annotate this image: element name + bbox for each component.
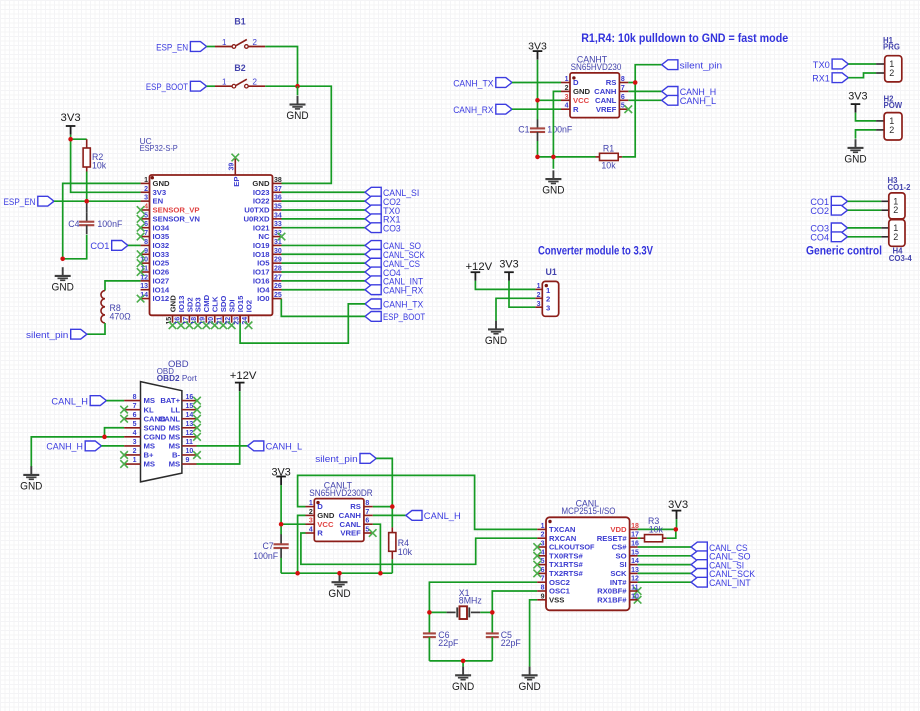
svg-text:100nF: 100nF — [97, 219, 123, 229]
svg-text:RS: RS — [350, 502, 361, 511]
svg-text:470Ω: 470Ω — [110, 312, 132, 322]
svg-text:1: 1 — [222, 38, 227, 47]
svg-text:U0TXD: U0TXD — [244, 206, 270, 215]
svg-text:22: 22 — [225, 317, 232, 325]
svg-text:CO2: CO2 — [810, 205, 829, 216]
svg-text:MS: MS — [169, 432, 181, 441]
svg-text:12: 12 — [631, 576, 639, 583]
svg-text:TX0RTS#: TX0RTS# — [549, 551, 583, 560]
svg-text:+12V: +12V — [230, 370, 257, 382]
svg-text:PRG: PRG — [883, 43, 900, 52]
svg-text:GND: GND — [485, 335, 507, 347]
svg-text:15: 15 — [186, 403, 194, 410]
svg-text:R1,R4: 10k pulldown to GND = f: R1,R4: 10k pulldown to GND = fast mode — [581, 33, 788, 45]
svg-text:2: 2 — [546, 295, 550, 304]
svg-text:INT#: INT# — [610, 578, 627, 587]
svg-text:8MHz: 8MHz — [459, 595, 482, 605]
svg-text:100nF: 100nF — [547, 125, 573, 135]
svg-text:11: 11 — [631, 585, 639, 592]
svg-text:8: 8 — [365, 500, 369, 507]
svg-text:19: 19 — [200, 317, 207, 325]
svg-text:IO23: IO23 — [253, 188, 270, 197]
svg-text:10: 10 — [631, 593, 639, 600]
svg-text:MS: MS — [169, 460, 181, 469]
svg-text:CANH: CANH — [339, 511, 362, 520]
svg-text:8: 8 — [621, 76, 625, 83]
svg-text:CANH_TX: CANH_TX — [383, 299, 424, 310]
svg-text:9: 9 — [541, 593, 545, 600]
svg-text:GND: GND — [52, 282, 74, 294]
svg-text:IO33: IO33 — [153, 250, 170, 259]
svg-text:14: 14 — [631, 558, 639, 565]
svg-text:CANH_TX: CANH_TX — [453, 77, 494, 88]
svg-text:IO17: IO17 — [253, 268, 270, 277]
svg-text:GND: GND — [844, 154, 866, 166]
svg-text:17: 17 — [631, 532, 639, 539]
svg-text:1: 1 — [133, 457, 137, 464]
svg-text:IO4: IO4 — [257, 285, 270, 294]
svg-text:10: 10 — [186, 448, 194, 455]
svg-text:IO16: IO16 — [253, 276, 270, 285]
svg-text:POW: POW — [884, 101, 903, 110]
svg-text:CANH: CANH — [594, 87, 617, 96]
svg-text:TX0: TX0 — [813, 59, 830, 70]
svg-text:24: 24 — [242, 317, 249, 325]
svg-text:VDD: VDD — [610, 525, 627, 534]
svg-text:B1: B1 — [234, 17, 245, 27]
svg-text:CANL: CANL — [595, 96, 617, 105]
svg-text:TXCAN: TXCAN — [549, 525, 576, 534]
svg-text:18: 18 — [631, 523, 639, 530]
svg-text:30: 30 — [274, 248, 282, 255]
svg-text:OSC2: OSC2 — [549, 578, 570, 587]
svg-text:2: 2 — [144, 186, 148, 193]
svg-text:13: 13 — [140, 283, 148, 290]
svg-text:7: 7 — [133, 403, 137, 410]
svg-text:GND: GND — [542, 185, 564, 197]
svg-text:RX0BF#: RX0BF# — [597, 587, 627, 596]
svg-text:2: 2 — [253, 38, 258, 47]
svg-text:U0RXD: U0RXD — [243, 214, 270, 223]
svg-text:10k: 10k — [398, 547, 413, 557]
svg-text:IO14: IO14 — [153, 285, 170, 294]
svg-text:D: D — [573, 78, 579, 87]
svg-text:MS: MS — [144, 460, 156, 469]
svg-text:IO26: IO26 — [153, 268, 170, 277]
svg-text:MS: MS — [169, 442, 181, 451]
svg-text:D: D — [317, 502, 323, 511]
svg-text:BAT+: BAT+ — [160, 396, 180, 405]
svg-text:RXCAN: RXCAN — [549, 534, 577, 543]
svg-text:ESP_EN: ESP_EN — [4, 196, 36, 207]
svg-text:3: 3 — [144, 195, 148, 202]
svg-text:EP: EP — [232, 177, 241, 187]
svg-text:2: 2 — [889, 125, 894, 135]
svg-text:VCC: VCC — [573, 96, 590, 105]
svg-text:2: 2 — [133, 448, 137, 455]
svg-text:GND: GND — [286, 110, 308, 122]
svg-text:6: 6 — [621, 94, 625, 101]
svg-text:3: 3 — [537, 301, 541, 308]
svg-text:RESET#: RESET# — [597, 534, 628, 543]
svg-text:16: 16 — [174, 317, 181, 325]
svg-text:3V3: 3V3 — [499, 259, 518, 271]
svg-text:16: 16 — [631, 541, 639, 548]
svg-text:silent_pin: silent_pin — [680, 60, 722, 71]
svg-text:13: 13 — [186, 421, 194, 428]
svg-text:20: 20 — [208, 317, 215, 325]
svg-text:14: 14 — [186, 412, 194, 419]
svg-text:ESP_BOOT: ESP_BOOT — [383, 311, 425, 322]
svg-text:VCC: VCC — [317, 520, 334, 529]
svg-text:CANL_H: CANL_H — [51, 395, 88, 406]
svg-text:1: 1 — [222, 78, 227, 87]
svg-text:GND: GND — [252, 179, 270, 188]
svg-text:LL: LL — [171, 405, 181, 414]
svg-text:SO: SO — [615, 551, 626, 560]
svg-text:10k: 10k — [92, 161, 107, 171]
svg-text:+12V: +12V — [465, 261, 492, 273]
svg-text:CS#: CS# — [612, 543, 628, 552]
svg-text:CANH_L: CANH_L — [680, 95, 717, 106]
svg-text:IO22: IO22 — [253, 197, 270, 206]
svg-text:B2: B2 — [234, 63, 245, 73]
svg-text:1: 1 — [541, 523, 545, 530]
svg-text:38: 38 — [274, 177, 282, 184]
svg-text:10k: 10k — [649, 525, 664, 535]
svg-text:6: 6 — [133, 412, 137, 419]
svg-text:10k: 10k — [601, 160, 616, 170]
svg-text:17: 17 — [183, 317, 190, 325]
svg-text:IO34: IO34 — [153, 223, 170, 232]
svg-text:GND: GND — [20, 481, 42, 493]
svg-text:4: 4 — [133, 430, 137, 437]
svg-text:8: 8 — [541, 585, 545, 592]
svg-text:16: 16 — [186, 394, 194, 401]
svg-text:CO1: CO1 — [90, 240, 109, 251]
svg-text:1: 1 — [546, 286, 551, 295]
svg-text:CANL: CANL — [340, 520, 362, 529]
svg-text:9: 9 — [186, 457, 190, 464]
svg-text:IO25: IO25 — [153, 259, 170, 268]
svg-text:GND: GND — [317, 511, 335, 520]
svg-text:1: 1 — [565, 76, 569, 83]
svg-text:EN: EN — [153, 197, 164, 206]
svg-text:35: 35 — [274, 203, 282, 210]
svg-text:B-: B- — [172, 451, 181, 460]
svg-text:SN65HVD230DR: SN65HVD230DR — [309, 488, 372, 498]
svg-text:2: 2 — [537, 292, 541, 299]
svg-text:22pF: 22pF — [501, 638, 522, 648]
svg-text:R1: R1 — [603, 143, 614, 153]
svg-text:29: 29 — [274, 257, 282, 264]
svg-text:3: 3 — [133, 439, 137, 446]
svg-text:1: 1 — [537, 283, 541, 290]
svg-text:RX1BF#: RX1BF# — [597, 595, 627, 604]
svg-text:TX2RTS#: TX2RTS# — [549, 569, 583, 578]
svg-text:IO18: IO18 — [253, 250, 270, 259]
svg-text:GND: GND — [452, 681, 474, 693]
svg-text:IO21: IO21 — [253, 223, 270, 232]
svg-text:2: 2 — [541, 532, 545, 539]
svg-text:IO2: IO2 — [244, 300, 253, 312]
svg-text:VREF: VREF — [596, 105, 617, 114]
svg-text:22pF: 22pF — [438, 638, 459, 648]
svg-text:U1: U1 — [546, 267, 557, 277]
svg-text:ESP_BOOT: ESP_BOOT — [146, 81, 188, 92]
svg-text:21: 21 — [217, 317, 224, 325]
svg-text:IO0: IO0 — [257, 294, 269, 303]
svg-text:4: 4 — [565, 103, 569, 110]
svg-text:CLKOUTSOF: CLKOUTSOF — [549, 543, 595, 552]
svg-text:IO35: IO35 — [153, 232, 170, 241]
svg-text:Generic control: Generic control — [806, 246, 882, 258]
svg-text:IO27: IO27 — [153, 276, 170, 285]
svg-text:3: 3 — [309, 518, 313, 525]
svg-text:MS: MS — [169, 423, 181, 432]
svg-text:2: 2 — [889, 68, 894, 78]
svg-text:CANH_H: CANH_H — [46, 441, 83, 452]
svg-text:15: 15 — [166, 317, 173, 325]
svg-text:36: 36 — [274, 195, 282, 202]
svg-text:IO19: IO19 — [253, 241, 270, 250]
svg-text:6: 6 — [365, 518, 369, 525]
svg-text:2: 2 — [893, 205, 898, 215]
svg-text:TX1RTS#: TX1RTS# — [549, 560, 583, 569]
svg-text:1: 1 — [144, 177, 148, 184]
svg-text:2: 2 — [893, 232, 898, 242]
svg-text:IO5: IO5 — [257, 259, 270, 268]
svg-text:CGND: CGND — [144, 432, 167, 441]
svg-text:28: 28 — [274, 266, 282, 273]
svg-text:silent_pin: silent_pin — [26, 329, 68, 340]
svg-text:SENSOR_VP: SENSOR_VP — [153, 206, 200, 215]
svg-text:CANH_L: CANH_L — [266, 441, 303, 452]
svg-text:VSS: VSS — [549, 595, 564, 604]
svg-text:SGND: SGND — [144, 423, 167, 432]
svg-text:33: 33 — [274, 221, 282, 228]
svg-text:CO3: CO3 — [383, 223, 401, 234]
svg-text:GND: GND — [573, 87, 591, 96]
svg-text:11: 11 — [186, 439, 194, 446]
svg-text:3V3: 3V3 — [848, 90, 867, 102]
svg-text:2: 2 — [565, 85, 569, 92]
svg-text:3V3: 3V3 — [668, 499, 688, 511]
svg-text:B+: B+ — [144, 451, 155, 460]
svg-text:RS: RS — [606, 78, 617, 87]
svg-text:VREF: VREF — [340, 529, 361, 538]
svg-text:KL: KL — [144, 405, 155, 414]
svg-text:CANH_RX: CANH_RX — [453, 104, 494, 115]
svg-text:18: 18 — [191, 317, 198, 325]
svg-text:2: 2 — [309, 509, 313, 516]
svg-text:Converter module to 3.3V: Converter module to 3.3V — [538, 246, 653, 258]
svg-text:R: R — [317, 529, 323, 538]
svg-text:3: 3 — [565, 94, 569, 101]
svg-text:8: 8 — [133, 394, 137, 401]
svg-text:25: 25 — [274, 292, 282, 299]
svg-text:MS: MS — [144, 442, 156, 451]
svg-text:GND: GND — [153, 179, 171, 188]
svg-text:CANH_RX: CANH_RX — [383, 285, 424, 296]
svg-text:MCP2515-I/SO: MCP2515-I/SO — [562, 506, 616, 516]
svg-text:SCK: SCK — [610, 569, 627, 578]
svg-text:7: 7 — [365, 509, 369, 516]
svg-text:C4: C4 — [68, 219, 79, 229]
svg-text:CO4: CO4 — [810, 232, 829, 243]
svg-text:NC: NC — [258, 232, 270, 241]
svg-text:26: 26 — [274, 283, 282, 290]
svg-text:27: 27 — [274, 274, 282, 281]
svg-text:5: 5 — [133, 421, 137, 428]
svg-text:C1: C1 — [518, 125, 529, 135]
svg-text:R: R — [573, 105, 579, 114]
svg-text:34: 34 — [274, 212, 282, 219]
svg-text:C7: C7 — [262, 541, 273, 551]
svg-text:silent_pin: silent_pin — [315, 453, 357, 464]
svg-text:IO32: IO32 — [153, 241, 170, 250]
svg-text:1: 1 — [309, 500, 313, 507]
svg-text:2: 2 — [253, 78, 258, 87]
svg-text:SN65HVD230: SN65HVD230 — [571, 62, 622, 72]
svg-text:SI: SI — [619, 560, 626, 569]
svg-text:IO12: IO12 — [153, 294, 170, 303]
svg-text:3V3: 3V3 — [153, 188, 167, 197]
svg-text:ESP32-S-P: ESP32-S-P — [140, 143, 179, 153]
svg-text:CANL_H: CANL_H — [424, 510, 461, 521]
svg-text:100nF: 100nF — [253, 551, 279, 561]
svg-text:37: 37 — [274, 186, 282, 193]
svg-text:MS: MS — [144, 396, 156, 405]
svg-text:SENSOR_VN: SENSOR_VN — [153, 214, 201, 223]
svg-text:3V3: 3V3 — [528, 41, 547, 53]
svg-text:3: 3 — [546, 304, 550, 313]
svg-text:15: 15 — [631, 549, 639, 556]
svg-text:13: 13 — [631, 567, 639, 574]
svg-text:GND: GND — [328, 588, 350, 600]
svg-text:OSC1: OSC1 — [549, 587, 571, 596]
svg-text:RX1: RX1 — [812, 73, 830, 84]
svg-text:GND: GND — [518, 681, 540, 693]
svg-text:CO1-2: CO1-2 — [888, 183, 912, 192]
svg-text:ESP_EN: ESP_EN — [156, 41, 188, 52]
svg-text:7: 7 — [621, 85, 625, 92]
svg-text:3V3: 3V3 — [61, 112, 81, 124]
svg-text:CO3-4: CO3-4 — [889, 254, 913, 263]
svg-text:3V3: 3V3 — [271, 466, 290, 478]
svg-text:CANL: CANL — [159, 414, 181, 423]
svg-text:OBD2 Port: OBD2 Port — [157, 374, 198, 383]
svg-text:39: 39 — [229, 163, 236, 171]
svg-text:4: 4 — [309, 527, 313, 534]
svg-text:12: 12 — [186, 430, 194, 437]
svg-text:CANL_INT: CANL_INT — [709, 577, 751, 588]
